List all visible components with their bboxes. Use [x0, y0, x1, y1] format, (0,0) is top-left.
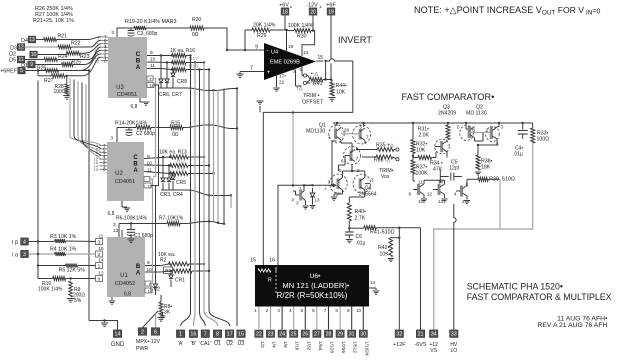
wire -12V rail	[312, 15, 314, 30]
terminal 15 U3bar	[237, 330, 245, 338]
svg-text:11: 11	[147, 168, 152, 174]
svg-text:18K: 18K	[481, 165, 491, 171]
left bus vertical x38	[37, 81, 39, 279]
ground T3	[464, 200, 470, 202]
wire terminal 2 diagonal	[143, 311, 159, 328]
wire channel bus 3	[78, 81, 101, 152]
svg-text:U4: U4	[271, 50, 278, 56]
wire output hop over +6F	[326, 59, 353, 61]
wire U6 pin 5	[304, 307, 306, 330]
transistor Q1 right	[353, 125, 371, 144]
U2 input pin 4 channel 7	[100, 145, 108, 147]
svg-text:R44•: R44•	[336, 83, 348, 89]
svg-text:10: 10	[356, 308, 362, 313]
wire D3 to U3	[71, 40, 101, 47]
svg-text:D5: D5	[9, 58, 16, 64]
comparator right border	[532, 123, 534, 128]
wire R20 feedback to op-amp	[204, 28, 264, 50]
svg-text:MD 1130: MD 1130	[466, 111, 487, 117]
junction dots on rail	[336, 122, 338, 124]
svg-text:6: 6	[312, 308, 315, 313]
transistor Q2 left	[468, 126, 471, 138]
svg-text:7: 7	[324, 308, 327, 313]
svg-text:15: 15	[250, 258, 256, 264]
terminal 2 MPX	[138, 328, 146, 336]
terminal 34 +12VS	[430, 330, 438, 338]
bus wire to terminal 1 A	[181, 56, 191, 327]
svg-text:R21: R21	[58, 34, 68, 40]
multiplexer U3 CD4051	[108, 37, 147, 98]
svg-text:1/64: 1/64	[317, 341, 323, 351]
svg-text:100Ω: 100Ω	[537, 137, 550, 143]
svg-text:1/16: 1/16	[294, 341, 300, 351]
svg-text:1: 1	[328, 134, 331, 139]
svg-text:1: 1	[254, 308, 257, 313]
svg-text:4: 4	[289, 308, 292, 313]
comparator top rail	[333, 122, 533, 124]
svg-text:MD1130: MD1130	[306, 129, 325, 135]
bus wire x224	[223, 89, 225, 224]
wire channel bus 2	[74, 80, 101, 149]
wire Q1b to Q4 drains	[351, 165, 353, 170]
resistor R7	[167, 222, 180, 226]
transistor Q2 right	[490, 127, 493, 139]
svg-text:33: 33	[451, 332, 457, 338]
ground below R8	[157, 317, 164, 319]
U3 input pin 4 channel 7	[101, 36, 109, 38]
wire Q1 bases	[341, 133, 359, 135]
terminal 33 HV LO	[450, 330, 458, 338]
transistor Q1 left	[329, 125, 344, 143]
svg-text:'B': 'B'	[191, 341, 196, 347]
wire trim to comparator	[292, 112, 294, 185]
svg-text:A: A	[136, 64, 141, 71]
svg-text:U2: U2	[115, 171, 123, 177]
wire R40 to node	[348, 221, 350, 228]
wire CR bottom rail	[159, 87, 187, 89]
svg-text:3: 3	[462, 199, 465, 204]
svg-text:13: 13	[95, 58, 100, 63]
transistor Q3	[435, 139, 450, 154]
ground below Q5	[302, 205, 308, 207]
svg-text:R4 10K 1%: R4 10K 1%	[50, 247, 77, 253]
ground below R9	[67, 298, 74, 300]
svg-text:27: 27	[314, 332, 320, 338]
wire U6 pin16 to Q4 gate	[278, 185, 334, 265]
svg-text:R/2R (R=50K±10%): R/2R (R=50K±10%)	[277, 291, 348, 300]
svg-text:0Ω: 0Ω	[192, 32, 199, 38]
svg-text:10: 10	[31, 52, 37, 58]
terminal 6 MPX	[151, 328, 159, 336]
svg-text:29: 29	[337, 332, 343, 338]
svg-text:R19-20 K1/4% MAR3: R19-20 K1/4% MAR3	[125, 19, 177, 25]
svg-text:VS: VS	[430, 348, 437, 354]
wire Q1 to Q1b	[341, 142, 352, 144]
svg-text:+6REF: +6REF	[0, 69, 18, 75]
svg-text:31: 31	[349, 332, 355, 338]
svg-text:SCHEMATIC PHA 1520•: SCHEMATIC PHA 1520•	[467, 282, 563, 292]
U3 input pin 14 channel 1	[101, 56, 109, 58]
wire D2 to U3	[80, 44, 101, 54]
svg-text:6,8: 6,8	[124, 292, 131, 298]
wire U6 pin 3	[281, 307, 283, 330]
terminal 31 1/512	[348, 330, 356, 337]
svg-text:-6VS: -6VS	[415, 342, 427, 348]
ground near terminal 6	[162, 313, 164, 316]
transistor Q1b middle	[344, 147, 361, 165]
svg-text:100K 1/4%: 100K 1/4%	[38, 287, 63, 293]
svg-text:R22: R22	[71, 40, 81, 46]
U2 pin7 wire down	[150, 179, 153, 284]
wire D1 to U3	[73, 51, 101, 65]
svg-text:17: 17	[227, 332, 233, 338]
svg-text:CR1: CR1	[175, 278, 185, 284]
resistor R1	[164, 267, 173, 273]
svg-text:2: 2	[266, 308, 269, 313]
wire R19 to R20	[146, 27, 190, 29]
svg-text:C: C	[133, 155, 138, 161]
wire T1 T2 collector rail	[424, 179, 445, 181]
wire Q1 emitter feedback to gate	[331, 141, 333, 185]
svg-text:3: 3	[371, 178, 374, 183]
svg-text:13: 13	[303, 50, 309, 56]
svg-text:8: 8	[335, 308, 338, 313]
wire R18 to bus	[186, 69, 209, 71]
svg-text:R21+25, 10K 1%: R21+25, 10K 1%	[33, 18, 74, 24]
wire U6 pin 7	[328, 307, 330, 330]
svg-text:28: 28	[326, 332, 332, 338]
svg-text:FAST COMPARATOR•: FAST COMPARATOR•	[402, 92, 495, 102]
terminal 28 1/128	[324, 330, 332, 337]
svg-text:6: 6	[339, 168, 342, 173]
svg-text:5: 5	[20, 68, 23, 74]
svg-text:7: 7	[204, 332, 207, 338]
svg-text:7: 7	[356, 156, 359, 161]
wire to terminal 33	[454, 204, 456, 330]
wire U6 pin 6	[316, 307, 318, 330]
svg-text:R14-20K1/4%: R14-20K1/4%	[115, 121, 148, 127]
svg-text:.01μ: .01μ	[356, 241, 366, 247]
terminal 8 U1bar	[213, 330, 221, 338]
terminal 1 A	[176, 330, 184, 338]
U2 input pin 14 channel 1	[100, 165, 108, 167]
svg-text:3,: 3,	[113, 222, 117, 228]
svg-text:16: 16	[269, 258, 275, 264]
svg-text:10K: 10K	[336, 90, 346, 96]
svg-text:1: 1	[98, 264, 101, 270]
wire R12 to bus	[188, 165, 209, 167]
wire to terminal 21	[420, 228, 422, 330]
resistor R19	[134, 26, 146, 30]
svg-text:s: s	[290, 4, 292, 9]
wire R14 to R15	[151, 127, 170, 129]
terminal 30 1/1024	[359, 330, 367, 337]
svg-text:32: 32	[396, 332, 402, 338]
svg-text:0Ω: 0Ω	[172, 132, 179, 138]
ground T1	[421, 198, 427, 200]
terminal 26 1/32	[301, 330, 309, 337]
trim circle minus delta	[303, 74, 306, 77]
svg-text:6: 6	[341, 159, 344, 164]
terminal 21 -6VS	[416, 330, 424, 338]
wire output to ladder	[263, 61, 353, 265]
svg-text:FAST COMPARATOR & MULTIPLEX: FAST COMPARATOR & MULTIPLEX	[467, 292, 612, 302]
svg-text:U2: U2	[226, 341, 233, 347]
svg-text:14: 14	[115, 332, 121, 338]
svg-text:R6-100K1/4%: R6-100K1/4%	[116, 216, 148, 222]
diode CR6	[171, 54, 173, 56]
U2 input pin 13 channel 0	[100, 168, 108, 170]
svg-text:+6F: +6F	[326, 3, 336, 9]
svg-text:1/1024: 1/1024	[363, 341, 369, 356]
U3 input pin 13 channel 0	[101, 60, 109, 62]
svg-text:13: 13	[94, 167, 99, 172]
svg-text:2: 2	[98, 252, 101, 258]
svg-text:+△: +△	[296, 86, 303, 92]
svg-text:REV A 21 AUG 76 AFH: REV A 21 AUG 76 AFH	[537, 322, 607, 329]
bus wire to terminal 17 U2	[209, 70, 230, 327]
svg-text:3: 3	[98, 240, 101, 246]
terminal 24 1/8	[278, 330, 286, 337]
bus wire to terminal 7 CAL	[200, 70, 206, 327]
svg-text:CD4051: CD4051	[115, 179, 136, 185]
svg-text:9: 9	[347, 308, 350, 313]
wire R6 R7 row	[119, 223, 167, 225]
left bus vertical x89	[88, 71, 90, 321]
svg-text:OFFSΕT: OFFSΕT	[302, 100, 324, 106]
wire U6 pin 1	[258, 307, 260, 330]
svg-text:+12F: +12F	[393, 342, 406, 348]
ground below R38	[475, 171, 481, 173]
svg-text:5%: 5%	[74, 298, 82, 304]
wire R16 to bus	[186, 55, 191, 57]
wire channel bus 1	[70, 78, 101, 146]
svg-text:3: 3	[277, 308, 280, 313]
svg-text:7: 7	[328, 180, 331, 185]
svg-text:24: 24	[279, 332, 285, 338]
svg-text:R3 10K 1%: R3 10K 1%	[50, 234, 77, 240]
svg-text:V​os: V​os	[381, 174, 390, 180]
label Q4 2N5564 wires	[342, 190, 344, 194]
U2 input pin 2 channel 6	[100, 148, 108, 150]
U2 input pin 15 channel 2	[100, 162, 108, 164]
svg-text:12: 12	[18, 45, 24, 51]
svg-text:9: 9	[30, 62, 33, 68]
svg-text:2: 2	[141, 330, 144, 336]
svg-text:R: R	[268, 278, 272, 284]
svg-text:R2: R2	[160, 258, 167, 264]
bus wire x213	[213, 91, 215, 222]
svg-text:4: 4	[23, 239, 26, 245]
svg-text:D4: D4	[21, 38, 28, 44]
U2 input pin 5 channel 5	[100, 151, 108, 153]
svg-text:C6: C6	[356, 234, 363, 240]
svg-text:3: 3	[334, 124, 337, 129]
svg-text:30: 30	[360, 332, 366, 338]
svg-text:U3: U3	[116, 85, 124, 91]
svg-text:21: 21	[279, 80, 285, 86]
svg-text:17•: 17•	[279, 74, 286, 80]
wire U2 rail to bus x231	[188, 190, 231, 196]
wire U3 rail to bus x237	[187, 88, 237, 91]
svg-text:U6•: U6•	[309, 273, 321, 280]
svg-text:R27: R27	[44, 78, 54, 84]
resistor R14	[136, 126, 151, 130]
ground below R42	[388, 258, 394, 260]
terminal 14 GND	[113, 330, 121, 338]
svg-text:1/256: 1/256	[340, 341, 346, 353]
transistor Q5 base input	[299, 190, 302, 201]
wire D4 to U3	[57, 37, 102, 40]
ground below R28	[63, 95, 70, 97]
svg-text:6,8: 6,8	[131, 104, 138, 110]
svg-text:U1: U1	[214, 341, 221, 347]
svg-text:21: 21	[418, 332, 424, 338]
trim circle plus delta	[303, 81, 306, 84]
wire R7 to comparator	[180, 222, 224, 224]
terminal 23 1/4	[266, 330, 274, 337]
U2 input pin 12 channel 3	[100, 158, 108, 160]
svg-text:C3, 680p: C3, 680p	[137, 31, 158, 37]
svg-text:13: 13	[29, 37, 35, 43]
U3 input pin 5 channel 5	[101, 43, 109, 45]
svg-text:5: 5	[457, 125, 460, 130]
wire C5 vertical	[439, 170, 441, 183]
svg-text:1: 1	[179, 332, 182, 338]
svg-text:12: 12	[427, 192, 433, 197]
multiplexer U2 CD4051	[107, 142, 144, 201]
svg-text:3: 3	[292, 69, 295, 75]
wire Q2 bases	[471, 132, 491, 134]
svg-text:'A': 'A'	[178, 341, 183, 347]
svg-text:R20: R20	[192, 17, 201, 23]
svg-text:PWR: PWR	[136, 346, 148, 352]
svg-text:3K: 3K	[164, 310, 171, 316]
svg-text:9: 9	[408, 192, 411, 197]
svg-text:1/128: 1/128	[329, 341, 335, 353]
terminal 32 +12F	[395, 330, 403, 338]
terminal 16 B	[189, 330, 197, 338]
svg-text:100K 1/4%: 100K 1/4%	[288, 23, 314, 29]
wire output node to R43	[325, 61, 327, 80]
wire Q1 collector to comparator mid	[344, 160, 346, 165]
svg-text:5: 5	[301, 308, 304, 313]
svg-text:2.7K: 2.7K	[355, 216, 366, 222]
svg-text:3: 3	[110, 136, 113, 142]
svg-text:TRIM •: TRIM •	[303, 93, 320, 99]
svg-text:2.0K: 2.0K	[418, 133, 429, 139]
svg-text:47K: 47K	[433, 167, 443, 173]
wire CR3 CR4 bottom rail	[161, 189, 188, 191]
wire R13 to bus	[188, 156, 204, 158]
svg-text:100Ω: 100Ω	[54, 89, 66, 95]
svg-text:+: +	[324, 187, 327, 192]
terminal 25 1/16	[290, 330, 298, 337]
svg-text:R29: R29	[257, 33, 267, 39]
svg-text:R23: R23	[80, 54, 90, 60]
svg-text:.01μ: .01μ	[513, 152, 523, 158]
jfet Q4 right	[353, 174, 371, 193]
ground below diode	[309, 205, 315, 207]
svg-text:-: -	[267, 49, 269, 55]
ground below C1	[127, 238, 134, 240]
resistor R15	[170, 126, 183, 130]
svg-text:LO: LO	[450, 348, 457, 354]
wire R37 to T1	[412, 174, 414, 181]
ground below Q4	[331, 196, 337, 198]
svg-text:R5 12K 5%: R5 12K 5%	[59, 268, 86, 274]
U3 input pin 15 channel 2	[101, 53, 109, 55]
U2 pin16 wire down	[151, 186, 156, 284]
wire U6 pin 10	[362, 307, 364, 330]
svg-text:R41-510Ω: R41-510Ω	[370, 230, 395, 236]
svg-text:U3: U3	[238, 341, 245, 347]
svg-text:I β: I β	[12, 240, 18, 246]
svg-text:10: 10	[418, 199, 424, 204]
ladder internal R symbol	[258, 269, 271, 272]
wire channel bus 5	[86, 84, 101, 159]
wire D5 to U3	[58, 47, 102, 59]
ground at pin 7	[239, 72, 241, 74]
svg-text:16: 16	[190, 332, 196, 338]
bus wire to terminal 8 U1	[204, 63, 218, 327]
svg-text:20: 20	[310, 9, 316, 15]
svg-text:13: 13	[113, 228, 119, 234]
svg-text:22: 22	[256, 332, 262, 338]
DAC U6 MN121 ladder	[255, 265, 369, 307]
svg-text:2N4209: 2N4209	[438, 111, 456, 117]
svg-text:R30: R30	[297, 34, 307, 40]
svg-text:13: 13	[438, 199, 444, 204]
terminal 29 1/256	[336, 330, 344, 337]
U3 pin7 wire down	[153, 79, 156, 177]
svg-text:10K: 10K	[380, 252, 390, 258]
svg-text:6: 6	[154, 330, 157, 336]
svg-text:1K ea. R16: 1K ea. R16	[170, 48, 195, 54]
svg-text:5: 5	[360, 125, 363, 130]
wire R11 to bus	[188, 173, 214, 175]
wire R30 to pin 13	[302, 31, 315, 57]
svg-text:1/32: 1/32	[305, 341, 311, 351]
svg-text:CR6, CR7: CR6, CR7	[159, 92, 182, 98]
svg-text:3: 3	[23, 252, 26, 258]
wire terminal 6	[155, 313, 157, 328]
svg-text:8: 8	[216, 332, 219, 338]
svg-text:9: 9	[147, 154, 150, 160]
wire border down	[434, 143, 533, 330]
svg-text:R7-10K1%: R7-10K1%	[159, 216, 184, 222]
wire U6 pin 8	[339, 307, 341, 330]
ground T2	[441, 198, 447, 200]
svg-text:CR8: CR8	[177, 79, 187, 85]
svg-text:B: B	[133, 162, 138, 168]
diode CR13	[312, 188, 314, 193]
svg-text:14: 14	[370, 280, 376, 286]
svg-text:1/512: 1/512	[352, 341, 358, 353]
svg-text:CD4052: CD4052	[115, 281, 136, 287]
svg-text:R12: R12	[177, 159, 186, 164]
svg-text:10K: 10K	[416, 148, 426, 154]
diode CR4	[168, 166, 170, 179]
svg-text:0: 0	[98, 277, 101, 283]
svg-text:A: A	[136, 271, 141, 277]
wire +6REF	[25, 70, 89, 72]
svg-text:11: 11	[418, 180, 423, 185]
op-amp U4 triangle	[264, 43, 316, 80]
bus wire to terminal 15 U3	[236, 89, 238, 327]
svg-text:R11: R11	[177, 167, 186, 172]
svg-text:MN 121 (LADDER)•: MN 121 (LADDER)•	[282, 281, 350, 290]
